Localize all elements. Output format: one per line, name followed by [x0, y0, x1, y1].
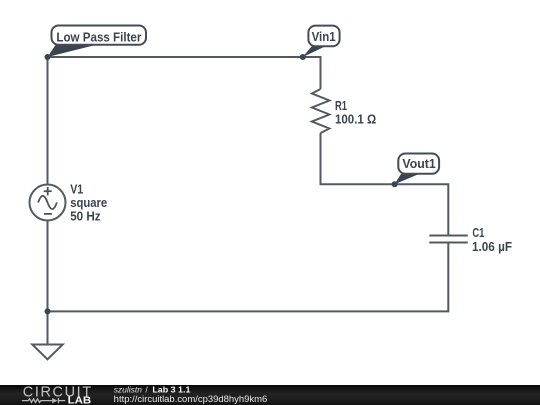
svg-text:http://circuitlab.com/cp39d8hy: http://circuitlab.com/cp39d8hyh9km6: [114, 394, 268, 404]
svg-text:R1: R1: [335, 99, 347, 113]
svg-text:1.06 µF: 1.06 µF: [472, 240, 512, 254]
svg-text:Vin1: Vin1: [312, 30, 336, 44]
svg-text:V1: V1: [70, 182, 83, 196]
svg-text:C1: C1: [472, 226, 484, 240]
svg-text:Low Pass Filter: Low Pass Filter: [56, 30, 141, 44]
svg-text:100.1 Ω: 100.1 Ω: [335, 113, 376, 127]
svg-text:square: square: [70, 196, 107, 210]
svg-text:Vout1: Vout1: [402, 157, 435, 171]
svg-text:LAB: LAB: [68, 396, 92, 405]
svg-text:50 Hz: 50 Hz: [70, 210, 100, 224]
